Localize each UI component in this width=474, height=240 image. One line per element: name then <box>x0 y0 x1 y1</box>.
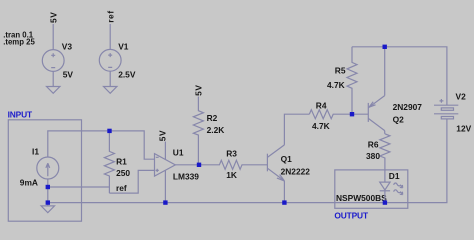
wire top rail <box>352 47 447 105</box>
transistor Q1 <box>267 145 284 181</box>
svg-text:12V: 12V <box>456 124 471 134</box>
spice directive .tran/.temp <box>3 30 35 46</box>
svg-text:R2: R2 <box>207 113 218 123</box>
wire Q1 emitter down <box>283 181 285 203</box>
voltage source V1 <box>99 49 121 71</box>
svg-text:R4: R4 <box>316 100 327 110</box>
resistor R2 <box>193 97 203 165</box>
node junction I1/R1 top <box>107 129 111 133</box>
wire V1 bottom <box>109 71 111 86</box>
svg-text:2N2222: 2N2222 <box>281 167 311 177</box>
svg-text:5V: 5V <box>63 70 74 80</box>
INPUT box <box>8 120 81 221</box>
wire I1 to R1 bottom <box>48 186 109 188</box>
svg-text:2N2907: 2N2907 <box>393 102 423 112</box>
op-amp U1 power pins <box>164 142 166 203</box>
svg-text:Q1: Q1 <box>281 154 293 164</box>
svg-text:V2: V2 <box>456 92 467 102</box>
junction output/R2/R3 <box>197 163 201 167</box>
ground (I1) <box>41 206 54 213</box>
ground (V3) <box>47 87 60 94</box>
wire V3 bottom <box>52 71 54 86</box>
svg-text:INPUT: INPUT <box>8 109 33 119</box>
junction R4/R5 <box>350 112 354 116</box>
svg-text:380: 380 <box>366 151 380 161</box>
svg-text:4.7K: 4.7K <box>327 80 345 90</box>
junction I1 ground rail <box>46 200 50 204</box>
resistor R3 <box>199 160 267 169</box>
svg-text:U1: U1 <box>173 148 184 158</box>
wire op-amp output <box>175 164 199 166</box>
junction op-amp V- on rail <box>163 200 167 204</box>
svg-text:I1: I1 <box>32 147 39 157</box>
current source I1 <box>37 157 59 179</box>
voltage source V3 <box>42 50 64 72</box>
wire I1 top to node <box>48 131 110 157</box>
svg-text:ref: ref <box>116 183 127 193</box>
svg-text:.temp 25: .temp 25 <box>3 37 35 46</box>
op-amp U1 <box>155 154 176 177</box>
wire V3 top <box>52 24 54 50</box>
wire node to op-amp minus <box>110 131 155 159</box>
wire Q1 collector up <box>284 114 309 145</box>
junction top rail / Q2 emitter <box>383 45 387 49</box>
wire Q2 collector down <box>384 131 386 134</box>
svg-text:9mA: 9mA <box>20 177 38 187</box>
junction D1 rail <box>383 200 387 204</box>
svg-text:Q2: Q2 <box>393 114 405 124</box>
svg-text:R1: R1 <box>116 157 127 167</box>
svg-text:5V: 5V <box>157 130 167 141</box>
wire V1 top <box>109 24 111 49</box>
junction Q1 emitter rail <box>282 200 286 204</box>
resistor R6 <box>380 134 390 182</box>
svg-text:5V: 5V <box>48 12 58 23</box>
resistor R1 <box>104 131 114 193</box>
transistor Q2 <box>368 96 384 131</box>
svg-text:250: 250 <box>116 168 130 178</box>
resistor R5 <box>347 47 357 114</box>
svg-text:V3: V3 <box>62 42 73 52</box>
wire D1 cathode down <box>384 191 386 203</box>
wire bottom rail <box>48 119 447 203</box>
ground (V1) <box>104 87 117 94</box>
svg-text:V1: V1 <box>118 42 129 52</box>
voltage source V2 battery <box>434 99 458 119</box>
wire I1 bottom <box>47 179 49 206</box>
svg-text:2.5V: 2.5V <box>118 70 136 80</box>
svg-text:2.2K: 2.2K <box>207 125 225 135</box>
wire Q2 emitter up <box>384 47 386 96</box>
svg-text:OUTPUT: OUTPUT <box>334 210 369 220</box>
svg-text:5V: 5V <box>194 84 204 95</box>
resistor R4 <box>309 110 368 119</box>
svg-text:NSPW500BS: NSPW500BS <box>336 193 387 203</box>
svg-text:ref: ref <box>105 10 115 23</box>
svg-text:R6: R6 <box>368 139 379 149</box>
svg-text:4.7K: 4.7K <box>312 121 330 131</box>
svg-text:R3: R3 <box>226 149 237 159</box>
svg-text:R5: R5 <box>335 66 346 76</box>
svg-text:D1: D1 <box>389 171 400 181</box>
svg-text:1K: 1K <box>226 170 237 180</box>
svg-text:LM339: LM339 <box>173 171 199 181</box>
junction I1 bottom <box>46 185 50 189</box>
wire ref to op-amp plus <box>109 170 154 193</box>
OUTPUT box <box>335 170 408 208</box>
LED D1 <box>380 182 403 195</box>
